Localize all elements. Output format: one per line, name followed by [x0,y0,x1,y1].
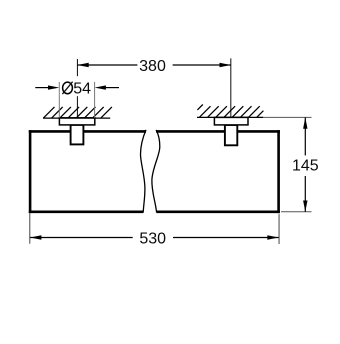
svg-text:145: 145 [292,157,319,174]
svg-text:530: 530 [139,230,166,247]
svg-text:380: 380 [139,58,166,75]
svg-text:54: 54 [73,80,91,97]
